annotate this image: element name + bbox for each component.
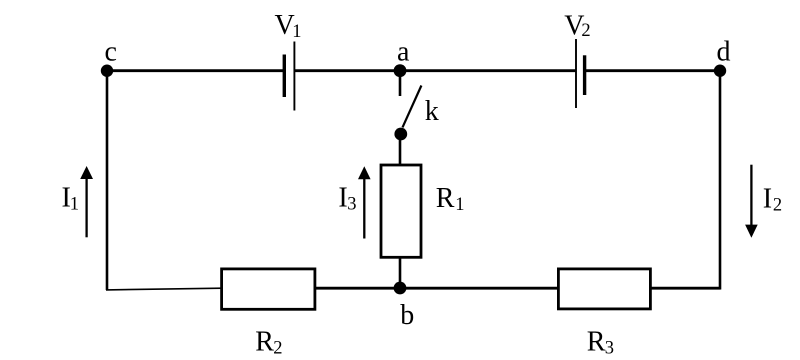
svg-text:2: 2 [773,196,782,216]
wire R2 to node b [315,287,400,290]
battery V1 [284,42,294,111]
node d [714,65,726,77]
wire top left: c to V1 [107,69,284,72]
current arrow I3 [358,166,371,238]
svg-text:R: R [587,327,606,358]
svg-text:a: a [397,37,410,68]
wire switch to R1 [399,134,402,165]
svg-text:R: R [436,183,455,214]
wire top right: V2 to d [585,69,720,72]
resistor R3 [558,269,650,309]
wire right branch vertical [719,71,722,290]
svg-text:3: 3 [347,195,356,215]
svg-text:1: 1 [292,22,301,42]
wire R1 to node b [399,257,402,288]
svg-text:2: 2 [581,21,590,41]
svg-text:d: d [717,36,731,67]
current arrow I1 [80,166,93,237]
svg-text:2: 2 [273,338,282,358]
wire stub below node a [399,71,402,96]
resistor R1 [381,165,421,257]
switch contact node [394,128,407,141]
svg-text:b: b [400,300,414,331]
node b [394,282,407,295]
wire R3 to bottom right corner [650,287,720,290]
svg-text:c: c [105,37,117,68]
battery V2 [576,39,585,108]
resistor R2 [222,269,315,309]
current arrow I2 [745,165,758,238]
node c [101,65,113,77]
svg-text:3: 3 [605,338,614,358]
node a [394,64,407,77]
svg-text:1: 1 [455,195,464,215]
wire node b to R3 [400,287,558,290]
wire left branch vertical [106,71,109,290]
svg-text:I: I [763,184,772,215]
svg-text:R: R [255,327,274,358]
wire bottom left thin sloped to R2 [106,288,222,290]
wire top middle: V1 to V2 through node a [294,69,576,72]
svg-text:k: k [425,96,439,127]
switch k blade [403,86,422,128]
svg-text:1: 1 [70,195,79,215]
